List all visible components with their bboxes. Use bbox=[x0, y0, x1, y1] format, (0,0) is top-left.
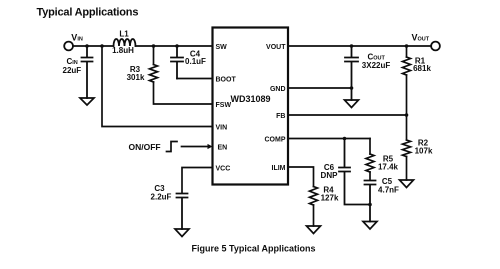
wire ILIM to R4 bbox=[288, 167, 314, 187]
node junction VIN branch bbox=[100, 44, 104, 48]
wire to R3 bbox=[153, 46, 155, 65]
node junction CIN bbox=[85, 44, 89, 48]
resistor R2 bbox=[403, 140, 411, 157]
resistor R1 bbox=[403, 57, 411, 75]
svg-text:2.2uF: 2.2uF bbox=[151, 193, 172, 202]
node junction GND bbox=[350, 86, 354, 90]
svg-text:FSW: FSW bbox=[216, 102, 232, 109]
wire GND pin bbox=[288, 87, 352, 89]
svg-text:17.4k: 17.4k bbox=[378, 163, 399, 172]
resistor R3 bbox=[150, 65, 158, 83]
inductor L1 bbox=[114, 39, 136, 46]
wire FB bbox=[288, 114, 407, 116]
svg-text:BOOT: BOOT bbox=[216, 77, 237, 84]
svg-text:681k: 681k bbox=[413, 64, 431, 73]
capacitor C6 bbox=[339, 139, 370, 205]
wire C4 to BOOT bbox=[177, 78, 213, 80]
op-amp U1 WD31089 bbox=[213, 28, 289, 185]
capacitor C4 bbox=[171, 46, 183, 79]
svg-text:DNP: DNP bbox=[321, 171, 339, 180]
wire R1 to FB bbox=[406, 75, 408, 115]
node junction R3 bbox=[152, 44, 156, 48]
wire VIN to L1 bbox=[73, 45, 114, 47]
wire VOUT rail bbox=[288, 45, 431, 47]
svg-text:ON/OFF: ON/OFF bbox=[129, 142, 161, 152]
svg-text:COMP: COMP bbox=[265, 137, 286, 144]
svg-text:VCC: VCC bbox=[216, 166, 231, 173]
svg-text:WD31089: WD31089 bbox=[230, 94, 270, 104]
capacitor CIN bbox=[82, 46, 93, 98]
svg-text:GND: GND bbox=[270, 86, 286, 93]
svg-text:ILIM: ILIM bbox=[272, 165, 286, 172]
svg-text:VIN: VIN bbox=[216, 125, 228, 132]
node junction R1 bbox=[405, 44, 409, 48]
ground COUT bbox=[345, 100, 359, 108]
wire FB to R2 bbox=[406, 115, 408, 140]
terminal VOUT bbox=[431, 42, 440, 51]
svg-text:SW: SW bbox=[216, 44, 228, 51]
svg-text:EN: EN bbox=[218, 145, 228, 152]
node junction FB bbox=[405, 113, 409, 117]
svg-text:Typical Applications: Typical Applications bbox=[37, 7, 139, 19]
node junction COUT bbox=[350, 44, 354, 48]
svg-text:FB: FB bbox=[276, 113, 285, 120]
terminal VIN bbox=[64, 42, 73, 51]
wire COMP bbox=[288, 138, 370, 140]
arrowhead EN bbox=[208, 144, 213, 149]
node junction C6 bottom bbox=[368, 203, 372, 207]
ground C5 bbox=[363, 222, 377, 230]
svg-text:22uF: 22uF bbox=[63, 66, 82, 75]
wire EN arrow bbox=[182, 146, 209, 148]
wire VCC to C3 bbox=[182, 168, 213, 193]
svg-text:127k: 127k bbox=[321, 193, 339, 202]
resistor R5 bbox=[366, 154, 374, 172]
ground C3 bbox=[175, 229, 189, 237]
capacitor COUT bbox=[345, 46, 358, 100]
node junction C6 bbox=[343, 137, 347, 141]
ground R4 bbox=[307, 226, 321, 234]
wire to R1 bbox=[406, 46, 408, 57]
wire VIN branch to VIN pin bbox=[102, 46, 213, 127]
capacitor C3 bbox=[177, 194, 188, 230]
svg-text:0.1uF: 0.1uF bbox=[185, 57, 206, 66]
wire R2 to ground bbox=[406, 157, 408, 181]
svg-text:301k: 301k bbox=[127, 73, 145, 82]
wire L1 to SW bbox=[136, 45, 213, 47]
ground CIN bbox=[80, 98, 94, 105]
wire R3 to FSW bbox=[154, 82, 213, 104]
capacitor C5 bbox=[365, 181, 376, 222]
svg-text:3X22uF: 3X22uF bbox=[362, 61, 391, 70]
svg-text:4.7nF: 4.7nF bbox=[378, 185, 399, 194]
wire R5 to C5 bbox=[369, 172, 371, 180]
node junction C4 bbox=[175, 44, 179, 48]
wire R4 to ground bbox=[313, 205, 315, 226]
svg-text:107k: 107k bbox=[415, 147, 433, 156]
step symbol bbox=[167, 142, 178, 152]
wire COMP to R5 bbox=[369, 139, 371, 155]
svg-text:VOUT: VOUT bbox=[266, 44, 286, 51]
ground R2 bbox=[400, 180, 414, 188]
svg-text:L1: L1 bbox=[119, 30, 129, 39]
svg-text:1.8uH: 1.8uH bbox=[112, 46, 134, 55]
svg-text:Figure 5 Typical Applications: Figure 5 Typical Applications bbox=[191, 244, 315, 254]
resistor R4 bbox=[310, 187, 318, 206]
